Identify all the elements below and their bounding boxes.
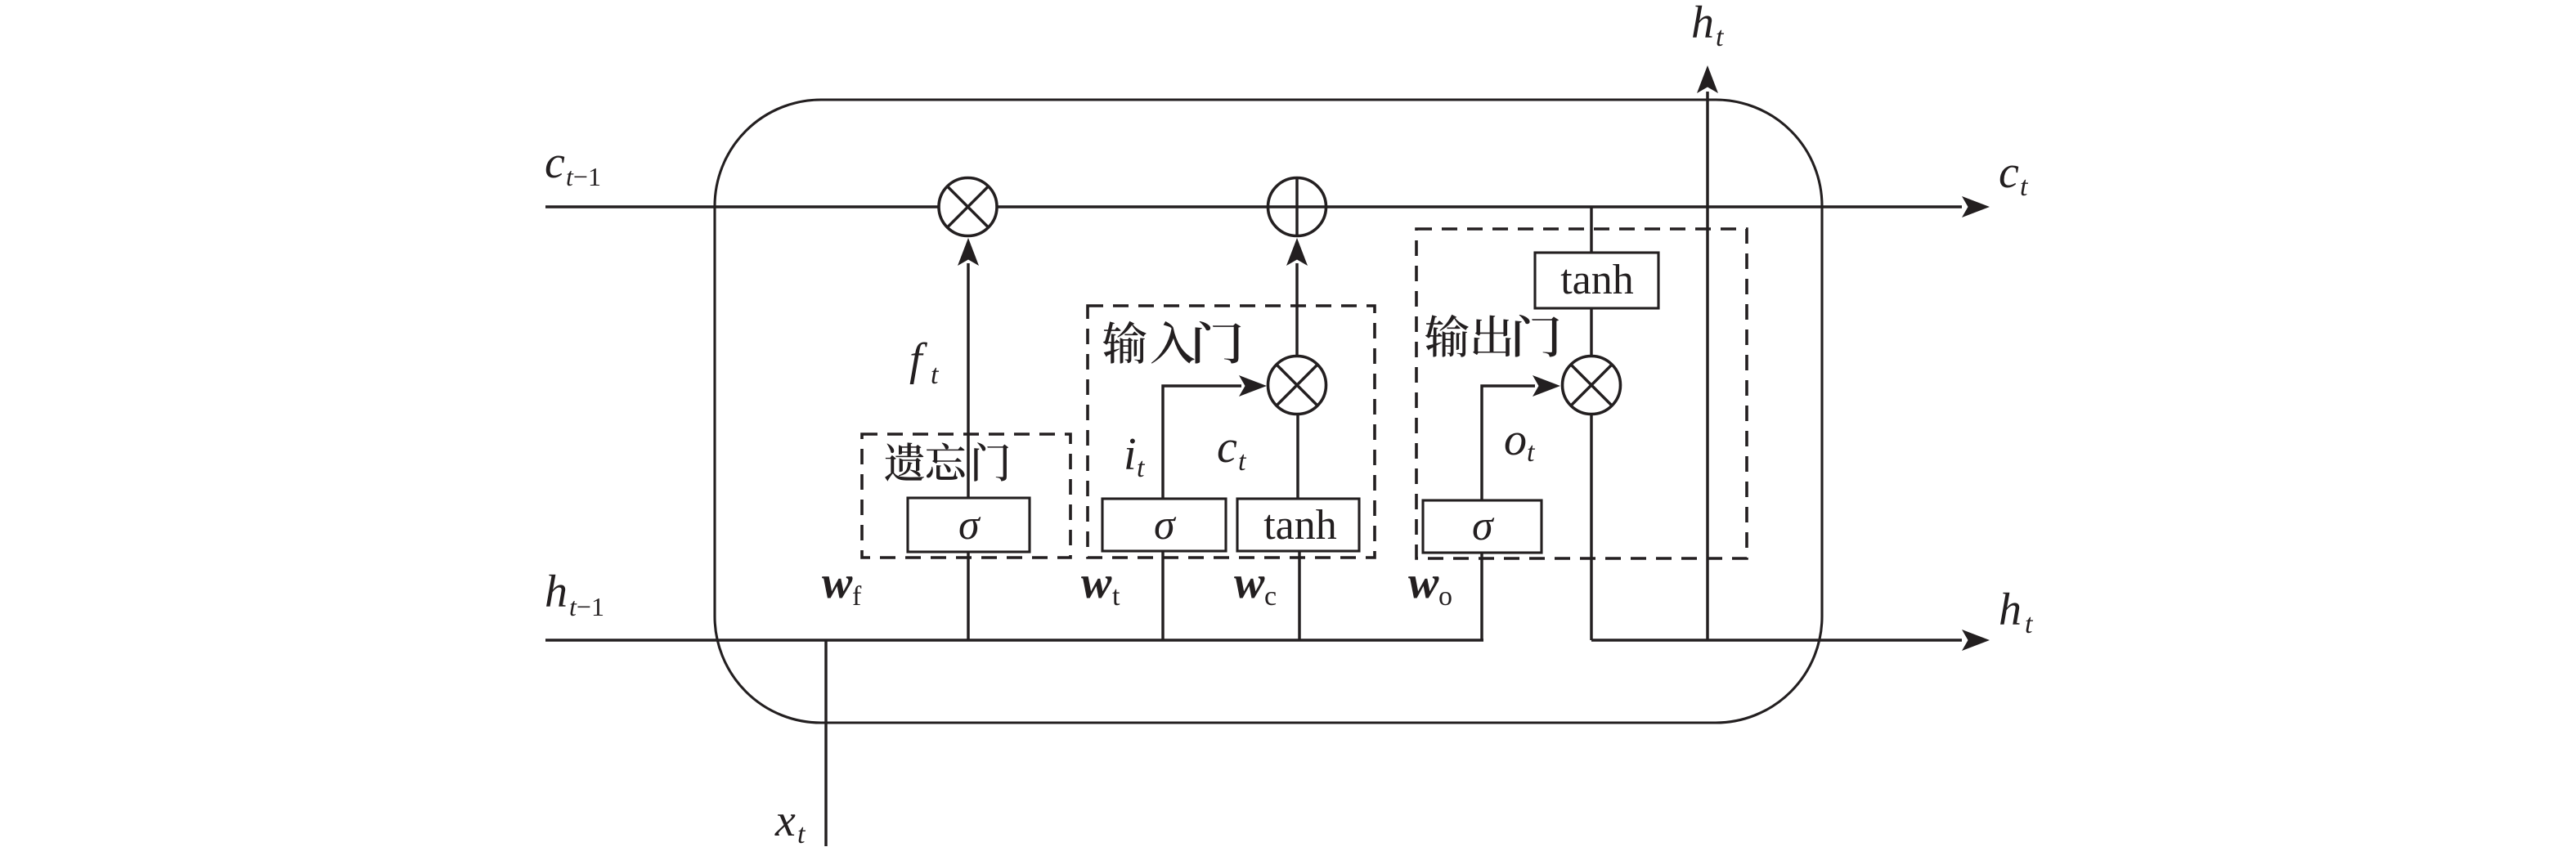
sigma box (input) (1102, 499, 1226, 551)
label 输出门 (output gate) (1425, 315, 1559, 357)
arrowhead o_t into multiply (1533, 375, 1560, 397)
tanh box (candidate) (1237, 499, 1359, 551)
label 遗忘门 (forget gate) (885, 442, 1008, 481)
svg-text:t: t (2020, 172, 2029, 202)
svg-text:t: t (1137, 453, 1146, 483)
multiply node forget (on c line) (939, 178, 997, 236)
wire: sigma_f down to h line (967, 552, 969, 640)
arrowhead c_t output (1962, 196, 1990, 217)
wire: tanh_c down to h line (1298, 551, 1300, 640)
svg-text:σ: σ (1472, 503, 1495, 549)
wire: tanh_o down to multiply (1590, 308, 1592, 356)
svg-text:w: w (1408, 558, 1439, 608)
svg-text:o: o (1438, 581, 1452, 612)
multiply node input (i_t x c_t) (1268, 356, 1326, 415)
svg-text:tanh: tanh (1263, 502, 1337, 549)
wire: c line down to tanh_o (1590, 207, 1592, 253)
svg-text:t: t (1527, 437, 1536, 468)
label 输入门 (input gate) (1103, 321, 1241, 364)
svg-text:σ: σ (958, 502, 981, 549)
tanh box (output) (1535, 253, 1658, 308)
sigma box (output) (1423, 500, 1542, 553)
svg-text:w: w (822, 558, 853, 608)
svg-text:o: o (1504, 415, 1527, 465)
wire: multiply down to h_t line (1590, 415, 1592, 641)
wire: i_t elbow from sigma_i to multiply (1163, 386, 1241, 499)
wire: o_t elbow from sigma_o to multiply (1482, 386, 1535, 500)
svg-text:t−1: t−1 (569, 592, 604, 621)
svg-text:t−1: t−1 (566, 162, 601, 191)
svg-text:t: t (1716, 22, 1725, 52)
arrowhead f_t into multiply (958, 238, 979, 266)
arrowhead i_t into multiply (1239, 375, 1267, 397)
arrowhead into add node (1286, 238, 1308, 266)
svg-text:tanh: tanh (1560, 257, 1634, 303)
output gate dashed box (1416, 229, 1747, 558)
svg-text:h: h (1999, 585, 2022, 635)
LSTM cell body (rounded rectangle) (715, 100, 1822, 723)
svg-text:σ: σ (1154, 502, 1177, 549)
svg-text:t: t (797, 819, 806, 849)
wire: h_t output segment (bottom right) (1591, 639, 1962, 641)
wire: multiply up to add node (1295, 263, 1298, 356)
wire: sigma_f up to multiply node (967, 263, 969, 498)
forget gate dashed box (862, 434, 1070, 558)
wire: tanh_c up to multiply (1296, 415, 1299, 499)
svg-text:h: h (1691, 0, 1714, 48)
svg-text:c: c (1999, 147, 2019, 198)
svg-text:i: i (1124, 429, 1137, 480)
arrowhead h_t top (1697, 65, 1718, 93)
wire: x_t input vertical (824, 640, 827, 846)
svg-text:c: c (545, 137, 565, 188)
svg-text:c: c (1217, 422, 1237, 473)
svg-text:w: w (1081, 558, 1112, 608)
wire: sigma_i down to h line (1161, 551, 1164, 640)
svg-text:t: t (2025, 609, 2034, 639)
sigma box (forget) (908, 498, 1030, 552)
wire: cell-state line c (horizontal, y=253) (545, 205, 1962, 208)
input gate dashed box (1088, 306, 1375, 558)
svg-text:c: c (1264, 581, 1277, 612)
wire: sigma_o down to h line (1480, 553, 1483, 640)
multiply node output (o_t x tanh) (1563, 356, 1621, 415)
wire: h_t vertical to top (1706, 92, 1708, 640)
add node (circle plus) on c line (1268, 178, 1326, 236)
svg-text:h: h (545, 567, 568, 617)
svg-text:x: x (774, 795, 796, 846)
wire: h_{t-1} input line (horizontal, y=783) (545, 639, 1483, 641)
svg-text:t: t (931, 360, 940, 390)
arrowhead h_t right output (1962, 630, 1990, 651)
svg-text:t: t (1238, 446, 1247, 477)
svg-text:w: w (1234, 558, 1265, 608)
svg-text:f: f (852, 581, 862, 612)
svg-text:t: t (1112, 581, 1120, 612)
